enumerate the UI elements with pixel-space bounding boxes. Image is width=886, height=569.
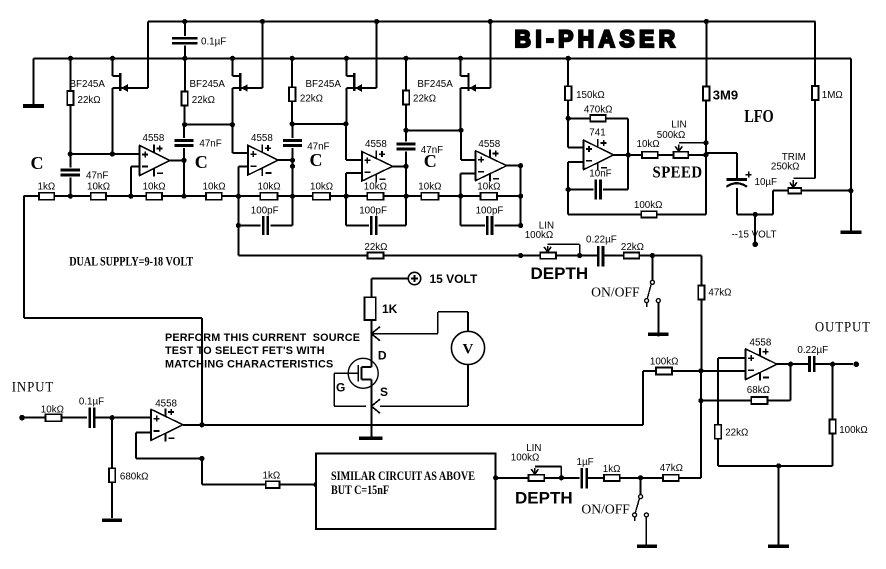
capacitor 0.22uF (depth1)	[586, 235, 624, 267]
resistor 3M9 (LFO to control line)	[703, 22, 738, 215]
capacitor 100pF (op2 bridge)	[238, 196, 292, 235]
node depth1 switch node	[650, 253, 702, 258]
wire mixer output	[777, 362, 809, 367]
svg-text:1K: 1K	[382, 302, 398, 316]
svg-text:10kΩ: 10kΩ	[258, 181, 281, 192]
supply terminal +15V	[408, 272, 420, 284]
capacitor 10uF (LFO coupling, polarized)	[706, 153, 777, 214]
wire stage4 node to op4 +input	[461, 130, 476, 160]
wire JFET3 gate to control line	[376, 22, 378, 89]
svg-text:SPEED: SPEED	[653, 162, 703, 181]
wire op1 output	[170, 158, 187, 163]
resistor 10k (rail 1)	[87, 181, 110, 199]
label -15 VOLT	[732, 229, 777, 240]
svg-text:TEST TO SELECT FET'S WITH: TEST TO SELECT FET'S WITH	[165, 345, 325, 357]
resistor 10k (rail 3)	[203, 181, 226, 199]
node stage-4 node line	[404, 128, 464, 133]
svg-text:100kΩ: 100kΩ	[525, 230, 554, 241]
resistor 22k (depth1) value 22k&#937;	[621, 242, 653, 259]
svg-text:0.22µF: 0.22µF	[586, 235, 617, 246]
wire buffer output	[183, 422, 205, 427]
svg-text:LFO: LFO	[744, 106, 774, 126]
output terminal	[853, 361, 859, 367]
wire op3 output down to rail (drawn with cap branch)	[405, 166, 407, 196]
resistor 150k value 150k&#937;	[565, 58, 605, 118]
resistor 10k (rail 7)	[418, 181, 441, 199]
wire ground rail	[34, 57, 852, 59]
svg-text:15 VOLT: 15 VOLT	[430, 272, 478, 286]
resistor 100k (channel2 to mixer) value 100k&#937;	[643, 356, 701, 424]
ground (top left)	[23, 58, 44, 108]
op-amp U2A 4558 (stage 3)	[362, 139, 393, 182]
svg-text:10kΩ: 10kΩ	[418, 181, 441, 192]
op-amp U3 741	[584, 127, 614, 170]
switch ON/OFF (lower)	[581, 478, 648, 521]
label OUTPUT	[815, 319, 871, 335]
wire buffer output to chain input (left riser)	[24, 196, 202, 425]
svg-text:47kΩ: 47kΩ	[660, 463, 683, 474]
svg-text:ON/OFF: ON/OFF	[581, 502, 630, 517]
node stage-3 node line	[290, 121, 349, 126]
svg-text:BF245A: BF245A	[306, 79, 342, 90]
svg-text:INPUT: INPUT	[12, 380, 55, 396]
svg-text:BF245A: BF245A	[70, 79, 106, 90]
svg-text:100pF: 100pF	[251, 205, 279, 216]
wire JFET4 source down to node	[460, 88, 462, 130]
node depth1 take-off	[518, 253, 523, 258]
node D probe arrow	[371, 327, 380, 341]
label SPEED	[653, 162, 703, 181]
svg-text:100kΩ: 100kΩ	[650, 356, 679, 367]
resistor 10k (rail 2, op1 feedback)	[143, 181, 166, 199]
svg-text:10nF: 10nF	[589, 168, 611, 179]
svg-text:4558: 4558	[478, 139, 500, 150]
wire ground rail right leg	[848, 58, 853, 230]
resistor 1k (input of chain) value 1k&#937;	[38, 181, 56, 199]
svg-text:OUTPUT: OUTPUT	[815, 319, 871, 335]
label LFO	[744, 106, 774, 126]
svg-text:100kΩ: 100kΩ	[511, 452, 540, 463]
svg-text:C: C	[31, 153, 44, 173]
svg-text:BI-PHASER: BI-PHASER	[515, 26, 680, 53]
op-amp U2B 4558 (stage 4)	[476, 139, 507, 182]
svg-text:BF245A: BF245A	[190, 79, 226, 90]
resistor 680k (bias) value 680k&#937;	[109, 418, 149, 518]
wire JFET3 source down to node	[345, 88, 347, 124]
resistor 1k (to lower channel) value 1k&#937;	[263, 470, 317, 488]
wire 741 output	[614, 152, 642, 157]
svg-text:22kΩ: 22kΩ	[413, 94, 436, 105]
svg-text:680kΩ: 680kΩ	[120, 472, 149, 483]
ground (input bias)	[102, 518, 122, 522]
wire 741 +input	[568, 118, 583, 147]
op-amp U1B 4558 (stage 2)	[248, 133, 278, 176]
transistor BF245A (stage 3)	[306, 58, 377, 92]
resistor 10k (rail 6, op3 feedback)	[364, 181, 387, 199]
wire op2 -input	[238, 167, 248, 197]
svg-text:10kΩ: 10kΩ	[87, 181, 110, 192]
transistor BF245A (stage 1)	[70, 58, 149, 92]
svg-text:DEPTH: DEPTH	[515, 488, 573, 507]
capacitor 10nF (741 timing)	[568, 155, 628, 199]
resistor 10k (input) value 10k&#937;	[41, 405, 87, 422]
svg-text:100pF: 100pF	[359, 205, 387, 216]
node input bias node	[110, 415, 152, 420]
node top-rail junction dots	[182, 19, 709, 24]
resistor 10k (rail 4, op2 feedback)	[258, 181, 281, 199]
wire buffer -input feedback	[136, 432, 205, 461]
potentiometer LIN 100k (DEPTH upper)	[525, 221, 598, 259]
wire JFET2 source down to node	[231, 88, 233, 125]
label DEPTH (upper)	[531, 264, 589, 283]
svg-text:470kΩ: 470kΩ	[584, 104, 613, 115]
transistor FET under test (circle symbol)	[334, 358, 378, 406]
svg-text:500kΩ: 500kΩ	[657, 130, 686, 141]
svg-text:SIMILAR CIRCUIT AS ABOVE: SIMILAR CIRCUIT AS ABOVE	[331, 468, 475, 483]
svg-text:PERFORM THIS CURRENT SOURCE: PERFORM THIS CURRENT SOURCE	[165, 332, 360, 344]
wire JFET2 gate to control line	[262, 22, 264, 89]
svg-text:DEPTH: DEPTH	[531, 264, 589, 283]
wire mixer +input and bias	[718, 358, 746, 425]
potentiometer LIN 500k SPEED	[657, 119, 706, 158]
wire stage3 node to op3 +input	[346, 124, 362, 160]
capacitor C 47nF (stage 4)	[396, 130, 443, 166]
svg-text:150kΩ: 150kΩ	[576, 90, 605, 101]
svg-text:1µF: 1µF	[577, 457, 594, 468]
op-amp U1A 4558 (stage 1)	[140, 133, 170, 176]
svg-text:10kΩ: 10kΩ	[41, 405, 64, 416]
ground (mixer)	[768, 466, 789, 547]
wire op4 output down to rail	[520, 166, 522, 196]
potentiometer LIN 100k (DEPTH lower)	[511, 443, 580, 481]
resistor 22k (stage 1) value 22k&#937;	[67, 58, 100, 154]
capacitor 0.1uF (control line decoupling)	[172, 22, 226, 59]
wire 1K to FET drain	[370, 320, 372, 367]
svg-text:68kΩ: 68kΩ	[747, 385, 770, 396]
svg-text:1MΩ: 1MΩ	[822, 90, 843, 101]
wire JFET1 source down to node	[111, 88, 113, 154]
svg-text:4558: 4558	[143, 133, 165, 144]
wire FET source to ground	[370, 380, 372, 438]
label C (stage 2)	[195, 152, 208, 172]
ground (lower switch)	[637, 517, 657, 546]
box SIMILAR CIRCUIT AS ABOVE BUT C=15nF	[316, 454, 496, 530]
capacitor 100pF (op4 bridge)	[461, 196, 521, 235]
transistor BF245A (stage 4)	[417, 58, 490, 92]
resistor 1M value 1M&#937;	[812, 86, 843, 178]
svg-text:250kΩ: 250kΩ	[771, 162, 800, 173]
svg-text:1kΩ: 1kΩ	[263, 470, 281, 481]
wire stage2 node to op2 +input	[232, 125, 248, 154]
ground (FET test)	[359, 437, 382, 440]
svg-text:10kΩ: 10kΩ	[143, 181, 166, 192]
svg-text:0.1µF: 0.1µF	[79, 397, 104, 408]
wire JFET1 gate to control line	[147, 22, 149, 89]
node stage-2 node line	[182, 122, 235, 127]
capacitor 0.1uF (input)	[79, 397, 112, 428]
ground (right, TRIM)	[840, 231, 861, 235]
resistor 1k (depth2) value 1k&#937;	[603, 464, 641, 481]
node output coupling junction	[830, 362, 835, 367]
wire +15V to 1K	[371, 279, 408, 298]
svg-text:22kΩ: 22kΩ	[300, 94, 323, 105]
svg-text:C: C	[195, 152, 208, 172]
node similar-box output	[493, 475, 528, 480]
wire op2 output down to rail	[292, 160, 294, 196]
wire JFET4 gate to control line	[489, 22, 491, 89]
capacitor 100pF (op3 bridge)	[346, 196, 406, 235]
svg-text:10kΩ: 10kΩ	[477, 181, 500, 192]
wire mixer ground line	[718, 463, 833, 468]
wire op1 -input	[131, 166, 140, 196]
wire op4 output	[507, 163, 524, 168]
wire channel-2 line to mixer	[202, 424, 643, 426]
svg-text:100pF: 100pF	[476, 205, 504, 216]
op-amp U4 4558 (input buffer)	[151, 399, 183, 442]
wire op3 -input	[346, 173, 362, 196]
label INPUT	[12, 380, 55, 396]
wire LFO control line (top rail)	[148, 21, 815, 23]
svg-text:C: C	[424, 151, 437, 171]
svg-text:DUAL SUPPLY=9-18 VOLT: DUAL SUPPLY=9-18 VOLT	[69, 253, 193, 268]
resistor 1K (current source test)	[365, 297, 398, 320]
svg-text:D: D	[378, 348, 387, 362]
resistor 10k (rail 5)	[310, 181, 333, 199]
resistor 100k (741 feedback) value 100k&#937;	[568, 190, 706, 218]
resistor 470k (741 positive feedback) value 470k&#937;	[568, 104, 628, 155]
wire depth2 to mixer riser	[700, 371, 702, 478]
svg-text:47kΩ: 47kΩ	[708, 287, 731, 298]
resistor 22k (stage 4) value 22k&#937;	[403, 58, 436, 130]
label C (stage 3)	[310, 150, 323, 170]
svg-text:4558: 4558	[155, 399, 177, 410]
wire op2 output	[278, 158, 295, 163]
label PERFORM THIS CURRENT SOURCE test note	[165, 332, 360, 371]
capacitor 1uF (depth2)	[577, 457, 605, 489]
svg-text:MATCHING CHARACTERISTICS: MATCHING CHARACTERISTICS	[165, 359, 333, 371]
svg-text:4558: 4558	[251, 133, 273, 144]
wire control line right leg (to TRIM wiper)	[814, 22, 816, 87]
svg-text:741: 741	[589, 127, 605, 138]
node LFO output node	[703, 140, 708, 157]
capacitor C 47nF (stage 1)	[61, 154, 109, 196]
label DUAL SUPPLY=9-18 VOLT	[69, 253, 193, 268]
wire depth1 row	[521, 255, 541, 257]
svg-text:1kΩ: 1kΩ	[603, 464, 621, 475]
node signal-rail junction dots	[68, 194, 524, 199]
wire -15V feed line	[737, 212, 773, 247]
wire op1 output down to rail	[183, 160, 185, 196]
capacitor C 47nF (stage 2)	[174, 125, 221, 197]
input terminal	[19, 415, 45, 421]
node stage-1 +input line	[68, 151, 140, 156]
node similar-box input	[313, 482, 318, 487]
svg-text:C: C	[310, 150, 323, 170]
label S	[380, 385, 388, 399]
svg-text:22kΩ: 22kΩ	[621, 242, 644, 253]
label 15 VOLT	[430, 272, 478, 286]
ground (upper switch)	[648, 303, 669, 336]
svg-text:10kΩ: 10kΩ	[364, 181, 387, 192]
resistor 22k (stage 3) value 22k&#937;	[289, 58, 323, 124]
svg-text:S: S	[380, 385, 388, 399]
wire mixer -input	[701, 370, 746, 372]
label BI-PHASER title	[515, 26, 680, 53]
svg-text:0.22µF: 0.22µF	[797, 345, 828, 356]
voltmeter V	[371, 312, 484, 406]
svg-text:BUT C=15nF: BUT C=15nF	[331, 482, 389, 497]
svg-text:4558: 4558	[365, 139, 387, 150]
svg-text:22kΩ: 22kΩ	[725, 427, 748, 438]
svg-text:V: V	[463, 342, 474, 358]
resistor 47k (depth2 mix) value 47k&#937;	[660, 463, 701, 481]
node S probe arrow	[371, 399, 380, 413]
capacitor C 47nF (stage 3)	[283, 124, 330, 196]
svg-text:4558: 4558	[750, 338, 772, 349]
capacitor 0.22uF (output)	[797, 345, 853, 372]
svg-text:1kΩ: 1kΩ	[38, 181, 56, 192]
svg-text:G: G	[336, 381, 345, 395]
svg-text:ON/OFF: ON/OFF	[591, 285, 640, 300]
svg-text:10kΩ: 10kΩ	[310, 181, 333, 192]
resistor 10k (rail 8, op4 feedback)	[477, 181, 500, 199]
resistor 47k (depth1 mix) value 47k&#937;	[698, 256, 731, 371]
svg-text:10kΩ: 10kΩ	[203, 181, 226, 192]
svg-text:22kΩ: 22kΩ	[78, 95, 101, 106]
svg-text:10µF: 10µF	[755, 177, 778, 188]
svg-text:0.1µF: 0.1µF	[201, 37, 226, 48]
label C (stage 4)	[424, 151, 437, 171]
switch ON/OFF (upper)	[591, 256, 660, 307]
label D	[378, 348, 387, 362]
resistor 22k (stage 2) value 22k&#937;	[181, 58, 215, 124]
label DEPTH (lower)	[515, 488, 573, 507]
node mixer -input junctions	[698, 368, 703, 403]
wire buffer output down to lower channel	[202, 459, 266, 485]
svg-text:100kΩ: 100kΩ	[634, 200, 663, 211]
op-amp U5 4558 (output mixer)	[746, 338, 777, 381]
node 741 +input network	[566, 116, 571, 121]
transistor BF245A (stage 2)	[190, 58, 263, 92]
resistor 10k (LFO out) value 10k&#937;	[637, 139, 674, 158]
svg-text:22kΩ: 22kΩ	[192, 95, 215, 106]
potentiometer TRIM 250k	[771, 152, 851, 215]
wire signal rail (summing chain)	[24, 195, 521, 197]
node 100pF junction dots	[236, 223, 523, 228]
svg-text:--15 VOLT: --15 VOLT	[732, 229, 777, 240]
resistor 68k (mixer feedback) value 68k&#937;	[701, 364, 791, 404]
label G	[336, 381, 345, 395]
svg-text:BF245A: BF245A	[417, 79, 453, 90]
resistor 22k (mixer bias) value 22k&#937;	[715, 425, 749, 466]
svg-text:100kΩ: 100kΩ	[839, 425, 868, 436]
wire op3 output	[393, 164, 409, 169]
svg-text:LIN: LIN	[671, 119, 686, 130]
svg-text:22kΩ: 22kΩ	[364, 242, 387, 253]
node depth2 switch node	[638, 475, 663, 480]
node ground-rail junction dots	[68, 56, 571, 61]
wire 741 -input	[566, 162, 584, 192]
svg-text:47nF: 47nF	[86, 171, 108, 182]
wire op4 -input	[461, 173, 476, 196]
resistor 22k (wide feedback) value 22k&#937;	[238, 226, 520, 259]
resistor 100k (output load) value 100k&#937;	[829, 364, 867, 466]
svg-text:47nF: 47nF	[199, 138, 221, 149]
label C (stage 1)	[31, 153, 44, 173]
svg-text:3M9: 3M9	[713, 88, 738, 103]
